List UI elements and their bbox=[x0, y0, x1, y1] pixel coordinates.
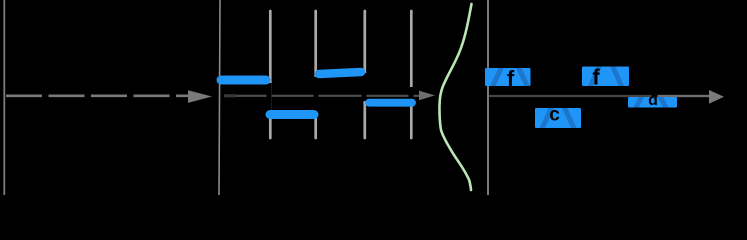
svg-text:d: d bbox=[648, 92, 658, 109]
svg-text:c: c bbox=[549, 105, 560, 126]
svg-text:f: f bbox=[507, 66, 515, 91]
svg-text:f: f bbox=[592, 65, 600, 90]
